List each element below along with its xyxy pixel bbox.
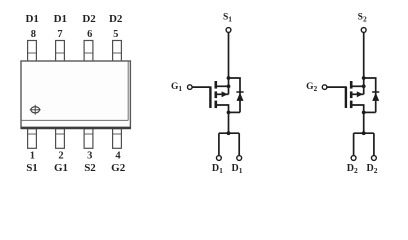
package U1 pin 3 lead [84, 129, 93, 149]
wire to right D2 terminal [373, 133, 375, 155]
wire to left D2 terminal [353, 133, 355, 155]
svg-text:G1: G1 [54, 162, 68, 174]
terminal S1 [226, 28, 231, 33]
body diode of Q2 [372, 92, 379, 101]
package U1 pin 7 lead [56, 41, 65, 62]
wire D1 split bar [219, 132, 239, 134]
svg-text:D2: D2 [82, 13, 96, 25]
svg-text:1: 1 [30, 150, 35, 161]
svg-text:G1: G1 [171, 82, 182, 93]
wire diode D2 anode to drain node [364, 111, 376, 113]
wire to right D1 terminal [238, 133, 240, 155]
junction dot at Q2 source lead [362, 84, 366, 88]
svg-text:6: 6 [87, 29, 92, 40]
transistor Q2 p-channel MOSFET [346, 81, 364, 112]
wire G2 to Q2 gate [327, 86, 346, 88]
junction node C (Q2 source / diode) [362, 76, 366, 80]
svg-text:D2: D2 [109, 13, 123, 25]
terminal D1 left [217, 156, 222, 161]
wire Q1 drain down [228, 112, 230, 133]
svg-text:G2: G2 [306, 82, 317, 93]
package U1 pin 5 lead [113, 41, 122, 62]
body diode of Q1 [236, 92, 243, 101]
svg-text:S1: S1 [223, 13, 232, 24]
svg-text:3: 3 [87, 150, 92, 161]
package U1 pin 4 lead [113, 129, 122, 149]
wire to diode D2 cathode [364, 78, 376, 112]
package U1 pin 2 lead [56, 129, 65, 149]
svg-text:S2: S2 [358, 13, 367, 24]
wire S2 to Q2 [363, 33, 365, 87]
wire to left D1 terminal [218, 133, 220, 155]
package U1 pin 6 lead [84, 41, 93, 62]
terminal G1 [188, 85, 193, 90]
svg-text:5: 5 [113, 29, 118, 40]
terminal G2 [322, 85, 327, 90]
wire S1 to Q1 [228, 33, 230, 87]
package U1 pin 1 lead [28, 129, 37, 149]
terminal D1 right [237, 156, 242, 161]
terminal D2 right [372, 156, 377, 161]
svg-text:8: 8 [31, 29, 36, 40]
wire G1 to Q1 gate [192, 86, 210, 88]
junction node D (Q2 drain / diode) [362, 111, 366, 115]
package U1 pin 8 lead [28, 41, 37, 62]
junction at D1 split [227, 131, 231, 135]
svg-text:S2: S2 [84, 162, 96, 174]
terminal S2 [361, 28, 366, 33]
svg-text:D1: D1 [54, 13, 67, 25]
junction dot at Q1 source lead [227, 84, 231, 88]
wire Q2 drain down [363, 112, 365, 133]
svg-text:D1: D1 [25, 13, 38, 25]
svg-text:G2: G2 [111, 162, 126, 174]
junction node B (Q1 drain / diode) [227, 111, 231, 115]
svg-text:4: 4 [115, 150, 121, 161]
transistor Q1 p-channel MOSFET [210, 81, 228, 112]
terminal D2 left [351, 156, 356, 161]
svg-text:2: 2 [58, 150, 63, 161]
wire to diode D1 cathode [229, 78, 241, 112]
wire D2 split bar [354, 132, 374, 134]
wire diode D1 anode to drain node [229, 111, 241, 113]
package U1 SO-8 body [21, 61, 131, 128]
junction at D2 split [362, 131, 366, 135]
svg-text:7: 7 [57, 29, 62, 40]
junction node A (Q1 source / diode) [227, 76, 231, 80]
package U1 pin 1 index mark [30, 105, 41, 115]
svg-text:S1: S1 [26, 162, 38, 174]
